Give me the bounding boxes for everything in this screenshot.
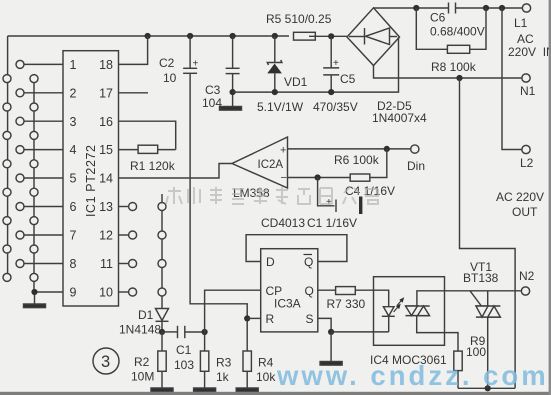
wire C2 to IC3A R node — [190, 73, 247, 318]
node dot VD1/ground line — [272, 89, 278, 95]
svg-text:+: + — [193, 59, 199, 70]
wire IC1 pin13 lead — [119, 206, 129, 208]
capacitor C1 103 — [162, 331, 178, 333]
ground S — [320, 362, 342, 366]
node dot C5/rail — [328, 33, 334, 39]
wire IC1 pin3 lead — [24, 120, 63, 122]
svg-text:+: + — [280, 145, 286, 157]
svg-text:17: 17 — [99, 86, 113, 100]
svg-text:OUT: OUT — [512, 205, 538, 219]
wire IC2A plus input — [288, 148, 412, 150]
svg-text:1k: 1k — [216, 370, 230, 384]
node dot C5/ground line — [328, 89, 334, 95]
callout circle 3 — [93, 348, 119, 374]
svg-text:AC: AC — [517, 32, 534, 46]
svg-text:C1: C1 — [176, 343, 192, 357]
ground C3 — [220, 107, 242, 111]
svg-text:R5 510/0.25: R5 510/0.25 — [266, 12, 332, 26]
wire phototriac MT1 to R9 — [417, 316, 458, 352]
wire D1 chain column — [161, 194, 163, 309]
svg-text:18: 18 — [99, 58, 113, 72]
terminal L1 — [522, 4, 530, 12]
wire IC1 pin17 stub — [119, 92, 149, 94]
wire IC1 pin6 lead — [24, 206, 63, 208]
node dot C2/rail — [187, 33, 193, 39]
wire IC1 pin2 lead — [24, 92, 63, 94]
svg-text:R6 100k: R6 100k — [334, 153, 380, 167]
scan edge right — [549, 0, 551, 395]
svg-text:IC1 PT2272: IC1 PT2272 — [84, 145, 98, 217]
node dot C3/ground line — [230, 89, 236, 95]
node dot N1 rail — [456, 75, 462, 81]
phototriac inside IC4 — [406, 305, 430, 307]
wire ground line — [233, 37, 399, 92]
svg-text:IC3A: IC3A — [274, 297, 301, 311]
svg-text:12: 12 — [99, 229, 113, 243]
flipflop IC3A box — [261, 249, 318, 332]
node dot minus/C4 — [315, 174, 321, 180]
wire phototriac MT2 out — [417, 291, 522, 306]
wire IC1 pin9 to ground — [35, 292, 64, 304]
svg-text:4: 4 — [70, 143, 77, 157]
node dot D1/C1/R2 — [159, 329, 165, 335]
wire rail R5 to bridge — [309, 35, 347, 37]
connector circles column A — [3, 75, 11, 282]
wire N1 rail down to bottom rail — [460, 78, 516, 388]
svg-text:D1: D1 — [138, 308, 154, 322]
wire L2 drop — [502, 8, 522, 150]
zener VD1 — [274, 36, 276, 63]
ground pin9 — [24, 304, 46, 308]
svg-text:IC2A: IC2A — [258, 159, 284, 171]
svg-text:3: 3 — [101, 353, 110, 371]
connector circles D1 chain — [158, 203, 166, 297]
wire bridge top line — [374, 7, 449, 9]
node dot plus/R6 — [384, 146, 390, 152]
node dot pin9 — [31, 289, 37, 295]
svg-text:+: + — [333, 58, 339, 69]
svg-text:Q: Q — [304, 255, 313, 269]
svg-text:D: D — [266, 255, 275, 269]
svg-text:AC 220V: AC 220V — [496, 190, 544, 204]
svg-text:N1: N1 — [520, 84, 536, 98]
wire IC1 pin8 lead — [24, 263, 63, 265]
svg-text:S: S — [306, 312, 314, 326]
wire IC1 pin7 lead — [24, 234, 63, 236]
svg-text:R1 120k: R1 120k — [130, 159, 176, 173]
node dot C6 right — [483, 5, 489, 11]
svg-text:13: 13 — [99, 200, 113, 214]
svg-text:11: 11 — [100, 257, 113, 271]
svg-text:103: 103 — [174, 358, 194, 372]
wire IC1 pin4 lead — [24, 149, 63, 151]
wire IC1 pin12 lead — [119, 234, 129, 236]
svg-text:C2: C2 — [159, 56, 175, 70]
capacitor C5 — [330, 36, 332, 68]
svg-text:C6: C6 — [430, 11, 446, 25]
resistor R1 — [119, 149, 139, 151]
LED inside IC4 — [383, 307, 394, 316]
node dot R pin — [244, 315, 250, 321]
svg-text:16: 16 — [99, 115, 113, 129]
node dot pin18/rail — [145, 33, 151, 39]
bridge D2-D5 outline — [347, 8, 400, 66]
svg-text:10k: 10k — [256, 370, 276, 384]
svg-text:R: R — [266, 312, 275, 326]
op-amp IC2A — [232, 137, 288, 188]
diode D1 1N4148 — [156, 309, 169, 321]
wire IC1 pin14 to op-amp output — [119, 164, 233, 179]
svg-text:R8 100k: R8 100k — [431, 60, 477, 74]
resistor R9 — [454, 351, 462, 371]
watermark chinese row — [166, 187, 378, 204]
svg-text:10: 10 — [99, 286, 113, 300]
wire D to Qbar feedback — [246, 235, 347, 262]
svg-text:N2: N2 — [519, 269, 535, 283]
wire top VDD rail — [8, 35, 289, 37]
svg-text:3: 3 — [70, 115, 77, 129]
svg-text:VD1: VD1 — [284, 75, 308, 89]
resistor R5 — [294, 32, 316, 40]
svg-text:1N4007x4: 1N4007x4 — [372, 111, 427, 125]
svg-text:1: 1 — [70, 58, 77, 72]
wire IC1 pin16 to R1 — [119, 121, 176, 149]
bridge inner diode — [349, 36, 364, 38]
svg-text:1N4148: 1N4148 — [119, 323, 161, 337]
capacitor C6 — [448, 3, 450, 14]
wire VT1 gate — [470, 291, 481, 306]
node dot C6 left — [413, 5, 419, 11]
wire VT1 MT1 — [487, 317, 489, 388]
node dot S ground — [328, 329, 334, 335]
wire bridge bottom to N1 — [374, 66, 527, 79]
svg-text:220V IN: 220V IN — [508, 45, 551, 59]
svg-text:R2: R2 — [134, 355, 150, 369]
wire CP to C1 node — [205, 290, 261, 332]
capacitor C3 — [232, 36, 234, 68]
overline Qbar — [304, 254, 313, 256]
svg-text:L2: L2 — [520, 156, 534, 170]
svg-text:7: 7 — [70, 229, 77, 243]
terminal L2 — [522, 145, 530, 153]
svg-text:5.1V/1W: 5.1V/1W — [257, 100, 304, 114]
svg-text:8: 8 — [70, 257, 77, 271]
labels — [70, 58, 114, 300]
resistor R6 — [288, 177, 351, 179]
LED arrows — [394, 306, 399, 312]
optocoupler IC4 box — [374, 277, 445, 346]
svg-text:R7 330: R7 330 — [327, 297, 366, 311]
svg-text:C5: C5 — [340, 72, 356, 86]
ground R4 — [236, 388, 258, 392]
wire IC1 pin1 lead — [24, 63, 63, 65]
terminal N1 — [522, 74, 530, 82]
svg-text:www. cndzz. com: www. cndzz. com — [276, 360, 549, 391]
svg-text:Q: Q — [305, 284, 314, 298]
svg-text:R4: R4 — [258, 356, 274, 370]
svg-text:15: 15 — [99, 143, 113, 157]
node dot C3/rail — [230, 33, 236, 39]
node dot VT1 MT1 — [485, 385, 491, 391]
node dot C1/CP/R3 — [202, 329, 208, 335]
node dot L2 rail — [499, 5, 505, 11]
capacitor C2 — [189, 36, 191, 68]
svg-text:10: 10 — [163, 71, 177, 85]
svg-text:104: 104 — [202, 96, 222, 110]
svg-text:14: 14 — [99, 172, 113, 186]
svg-text:9: 9 — [70, 286, 77, 300]
svg-text:C3: C3 — [205, 83, 221, 97]
svg-text:L1: L1 — [514, 16, 528, 30]
svg-text:Din: Din — [407, 159, 425, 173]
node dot VD1/rail — [272, 33, 278, 39]
connector circles pins13-10 — [129, 203, 137, 297]
resistor R3 — [204, 332, 206, 351]
resistor R2 — [161, 332, 163, 351]
scan edge bottom — [0, 392, 551, 395]
op-amp IC1 box — [63, 51, 119, 306]
triac VT1 BT138 — [476, 305, 501, 307]
svg-text:10M: 10M — [131, 370, 154, 384]
svg-text:CD4013: CD4013 — [261, 216, 305, 230]
resistor R7 — [318, 289, 336, 291]
svg-text:100: 100 — [466, 345, 486, 359]
wire S node to LED cathode — [331, 331, 389, 333]
resistor R8 — [416, 8, 447, 49]
svg-text:C1 1/16V: C1 1/16V — [307, 216, 357, 230]
wire IC1 pin10 lead — [119, 291, 129, 293]
ground R2 — [151, 388, 173, 392]
wire bottom rail — [458, 387, 515, 389]
terminal Din — [411, 145, 419, 153]
svg-text:0.68/400V: 0.68/400V — [430, 25, 485, 39]
terminal N2 — [521, 287, 529, 295]
svg-text:2: 2 — [70, 86, 77, 100]
svg-text:−: − — [281, 172, 287, 184]
ground R3 — [194, 388, 216, 392]
wire R pin — [247, 317, 261, 319]
connector circles column C — [30, 75, 38, 282]
wire IC1 pin18 to rail — [119, 36, 148, 64]
capacitor C4 — [318, 178, 335, 206]
svg-text:470/35V: 470/35V — [313, 100, 358, 114]
svg-text:R3: R3 — [216, 356, 232, 370]
connector circles column B pins1-8 — [16, 60, 24, 267]
wire IC1 pin5 lead — [24, 177, 63, 179]
svg-text:6: 6 — [70, 200, 77, 214]
wire VT1 MT2 — [487, 291, 489, 306]
wire address column C — [33, 79, 35, 292]
resistor R4 — [246, 318, 248, 351]
svg-text:5: 5 — [70, 172, 77, 186]
wire S pin to ground — [318, 318, 331, 332]
wire IC1 pin11 lead — [119, 263, 129, 265]
svg-text:BT138: BT138 — [463, 271, 499, 285]
wire left address column A — [7, 36, 9, 277]
